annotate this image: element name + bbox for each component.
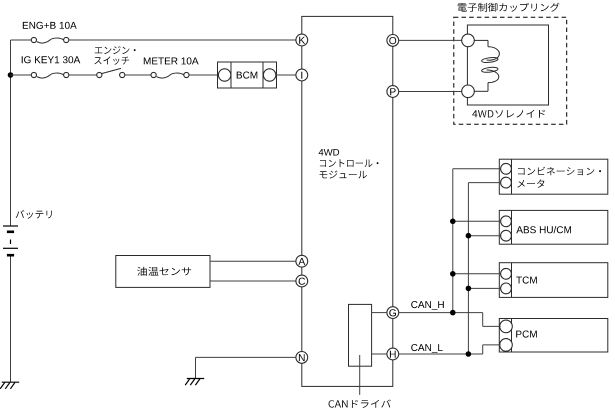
wire ENG+B 10A feed — [11, 39, 32, 41]
4WD control module U1 — [302, 16, 393, 386]
wire fuse to BCM — [189, 74, 219, 76]
label 油温センサ — [137, 267, 191, 276]
label IG KEY1 30A — [22, 56, 81, 63]
label CAN_H — [411, 301, 444, 310]
junction dot bus2-TCM — [466, 286, 472, 292]
wire CAN_L — [399, 353, 483, 355]
label 電子制御カップリング — [458, 3, 560, 12]
wire bus2 to combination meter — [468, 182, 500, 184]
electronic control coupling enclosure — [454, 17, 567, 124]
label METER 10A — [144, 57, 199, 64]
fuse ENG+B 10A — [37, 38, 64, 43]
wire BCM to terminal I — [276, 74, 296, 76]
PCM module — [499, 319, 608, 353]
wire bus1 to ABS — [453, 220, 501, 222]
ABS HU/CM module — [499, 210, 608, 244]
battery — [3, 225, 18, 227]
combination meter module — [499, 159, 608, 194]
label エンジン・スイッチ — [95, 46, 136, 54]
BCM module — [218, 62, 277, 88]
junction dot CAN_L bus2 — [466, 351, 472, 357]
wire bus2 to TCM — [468, 287, 500, 289]
TCM module — [499, 263, 608, 298]
oil temperature sensor — [116, 256, 210, 288]
wire bus1 to TCM — [453, 273, 501, 275]
wire bus1 to combination meter — [453, 168, 501, 170]
junction dot bus1-TCM — [450, 271, 456, 277]
label CANドライバ — [329, 400, 391, 408]
terminal P — [387, 86, 399, 98]
wire fuse to engine switch — [69, 74, 97, 76]
label バッテリ — [16, 210, 52, 219]
junction dot bus1-ABS — [450, 219, 456, 225]
terminal N — [296, 352, 308, 364]
wire CAN driver to H — [372, 353, 387, 355]
wire bus2 to ABS — [468, 235, 500, 237]
label 4WD コントロール・モジュール — [319, 149, 340, 156]
wire battery to ground — [10, 257, 12, 383]
wire CAN bus vertical 1 — [452, 169, 454, 313]
wire battery feed vertical — [10, 40, 12, 226]
wire sensor to C — [210, 280, 296, 282]
terminal O — [387, 35, 399, 47]
terminal A — [296, 255, 308, 267]
terminal H — [387, 348, 399, 360]
junction dot CAN_H bus1 — [450, 310, 456, 316]
wire CAN bus vertical 2 — [467, 183, 469, 354]
CAN driver leader line — [359, 355, 361, 395]
wire CAN_H — [399, 312, 483, 314]
junction dot bus2-ABS — [466, 233, 472, 239]
wire IG KEY1 30A feed — [11, 74, 32, 76]
label CAN_L — [411, 344, 442, 353]
label ENG+B 10A — [23, 22, 77, 29]
junction dot battery feed — [8, 72, 14, 78]
terminal G — [387, 307, 399, 319]
ground (module N) — [187, 378, 204, 380]
wire sensor to A — [210, 260, 296, 262]
terminal K — [296, 34, 308, 46]
fuse IG KEY1 30A — [37, 73, 64, 78]
terminal C — [296, 275, 308, 287]
solenoid housing box — [467, 25, 548, 105]
wire switch to METER fuse — [125, 74, 151, 76]
CAN driver block — [349, 304, 372, 366]
solenoid coil L1 — [474, 39, 488, 41]
wire O to solenoid — [399, 39, 462, 41]
fuse METER 10A — [157, 73, 184, 78]
label 4WDソレノイド — [472, 110, 545, 118]
wire CAN driver to G — [372, 312, 387, 314]
wire P to solenoid — [399, 91, 462, 93]
terminal I — [296, 69, 308, 81]
switch engine switch — [97, 72, 102, 77]
wire N to ground — [196, 356, 296, 358]
ground (battery) — [2, 381, 19, 383]
solenoid pin 1 — [462, 34, 475, 47]
solenoid pin 2 — [462, 85, 475, 98]
